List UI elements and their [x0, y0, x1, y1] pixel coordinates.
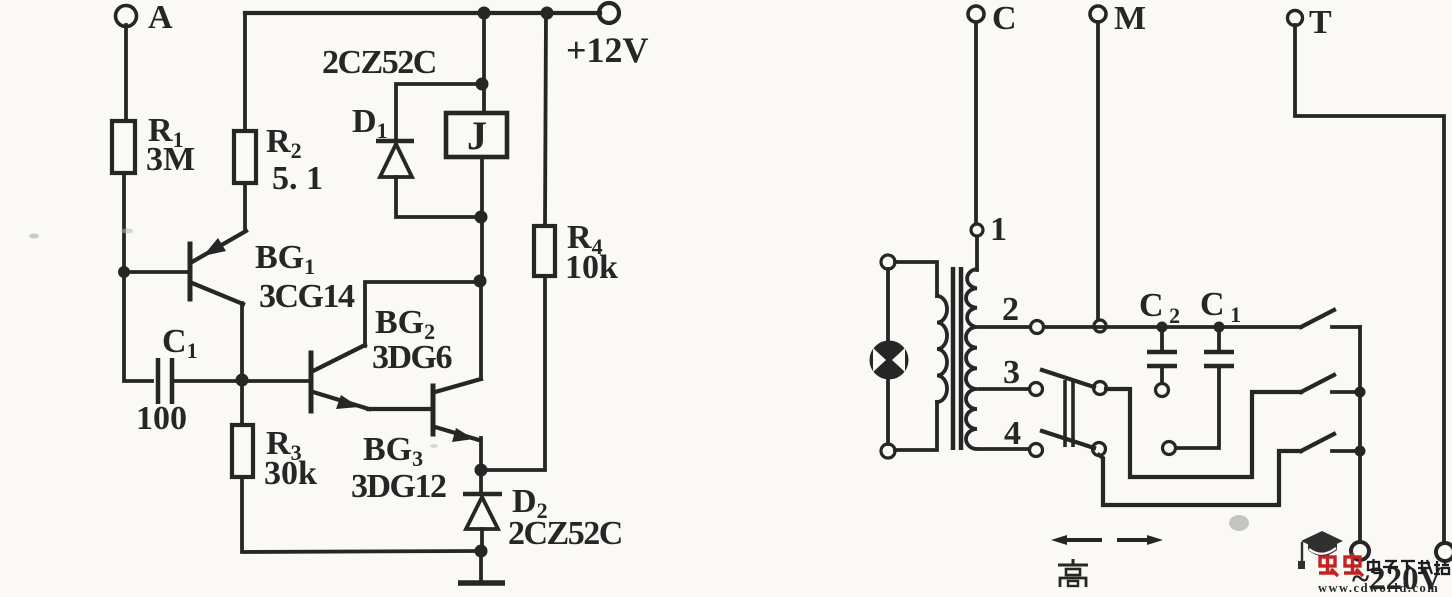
lamp top terminal — [881, 255, 895, 269]
lamp bottom terminal — [881, 444, 895, 458]
primary top wire — [895, 262, 937, 296]
wire BG2 emitter to BG3 base — [368, 407, 431, 411]
transformer primary winding — [937, 296, 947, 402]
primary bottom wire — [895, 402, 937, 450]
wire BG3 emitter junction to R4 — [481, 276, 545, 470]
wire tap2 bus — [1044, 325, 1301, 329]
capacitor C1 100 — [136, 323, 238, 437]
wire relay J down — [480, 157, 484, 282]
diode D2 2CZ52C — [463, 470, 622, 552]
resistor R2 5.1 — [234, 123, 323, 197]
junction C2-bus — [1157, 322, 1168, 333]
svg-text:4: 4 — [1004, 415, 1021, 452]
wire M down — [1096, 22, 1100, 320]
junction C1/R3/BG2 base — [236, 374, 249, 387]
svg-text:M: M — [1114, 0, 1146, 37]
stray mark left — [29, 234, 39, 239]
node T terminal — [1288, 4, 1333, 41]
junction C1-bus — [1214, 322, 1225, 333]
svg-text:3: 3 — [1003, 354, 1020, 391]
svg-text:10k: 10k — [565, 249, 618, 286]
svg-text:A: A — [148, 0, 173, 36]
wire BG2 collector up and right — [365, 282, 478, 346]
junction BG2/BG3 collectors — [474, 275, 487, 288]
tap 2 contact — [1031, 321, 1044, 334]
+12V terminal — [566, 3, 649, 70]
svg-text:+12V: +12V — [566, 30, 649, 70]
node 1 (winding top tap) — [971, 211, 1007, 248]
tap 4 wire — [979, 415, 1029, 452]
transformer secondary winding — [966, 269, 977, 449]
svg-text:C 1: C 1 — [1200, 286, 1241, 327]
label 高 (high) — [1058, 559, 1088, 587]
wire node1 to winding — [975, 237, 979, 270]
node junction left — [118, 266, 130, 278]
transistor BG2 3DG6 — [311, 304, 452, 411]
transistor BG3 3DG12 — [351, 379, 481, 505]
watermark graduation cap — [1298, 531, 1343, 569]
wire C down — [974, 22, 978, 223]
selector blade 4 — [1042, 431, 1094, 448]
diode D1 2CZ52C — [322, 44, 482, 217]
junction M-bus — [1094, 320, 1106, 332]
svg-text:BG2: BG2 — [375, 304, 435, 344]
selector blade 3 — [1042, 370, 1094, 387]
watermark text 电子下载站 — [1368, 559, 1449, 575]
wire R1 to node — [122, 173, 126, 272]
blade 4 pivot — [1093, 443, 1106, 456]
output terminal right — [1436, 543, 1452, 561]
node M terminal — [1090, 0, 1146, 37]
selector coupling bars — [1065, 380, 1073, 447]
svg-text:1: 1 — [990, 211, 1007, 248]
svg-text:R2: R2 — [266, 123, 302, 163]
svg-text:3M: 3M — [146, 141, 195, 178]
relay J — [446, 113, 507, 158]
adjust arrow left — [1051, 535, 1102, 545]
wire lamp top — [886, 269, 890, 343]
switch S2 (middle) — [1301, 375, 1360, 392]
svg-text:BG1: BG1 — [255, 239, 315, 279]
top supply rail wire — [245, 11, 600, 15]
trunk wire to output — [1358, 327, 1362, 542]
wire blade4 pivot to bottom switch — [1099, 451, 1301, 505]
svg-text:C 2: C 2 — [1139, 287, 1180, 328]
output terminal left — [1351, 542, 1369, 560]
wire R4 to top rail — [545, 13, 546, 226]
wire lamp bottom — [886, 378, 890, 444]
watermark ~220V gray smudge — [1229, 515, 1249, 531]
junction D1 bottom — [475, 211, 488, 224]
tap 2 wire — [979, 291, 1030, 328]
svg-text:2CZ52C: 2CZ52C — [508, 515, 622, 552]
wire BG3 collector up — [479, 283, 483, 379]
wire rail to relay J — [482, 13, 486, 113]
stray mark mid — [430, 444, 438, 448]
svg-text:www.cdworld.com: www.cdworld.com — [1318, 581, 1439, 592]
wire BG1 collector down — [240, 303, 244, 380]
resistor R3 30k — [232, 381, 317, 492]
svg-text:T: T — [1309, 4, 1332, 41]
wire T to output right — [1295, 25, 1444, 543]
node A terminal — [116, 0, 174, 36]
tap 3 wire — [979, 354, 1029, 391]
resistor R4 10k — [534, 219, 618, 286]
transistor BG1 3CG14 — [190, 231, 355, 315]
wire R3 down to bottom rail — [242, 477, 477, 552]
watermark logo 虫虫 — [1319, 553, 1363, 576]
wire node down to C1 — [124, 272, 152, 381]
wire R2 to top rail — [243, 13, 247, 131]
wire node to BG1 base — [124, 270, 188, 274]
stray mark left 2 — [121, 229, 133, 234]
svg-text:30k: 30k — [264, 455, 317, 492]
svg-text:2: 2 — [1002, 291, 1019, 328]
switch S1 (top) — [1301, 310, 1360, 327]
wire junction to BG2 base — [242, 379, 309, 383]
junction D1 top — [476, 78, 489, 91]
svg-text:C1: C1 — [162, 323, 198, 363]
adjust arrow right — [1117, 535, 1163, 545]
svg-text:3CG14: 3CG14 — [259, 278, 355, 315]
svg-text:D1: D1 — [352, 103, 388, 143]
capacitor C1 (right) — [1163, 286, 1242, 455]
svg-text:100: 100 — [136, 400, 187, 437]
tap 3 contact — [1030, 383, 1043, 396]
junction BG3 emitter / D2 / R4 — [475, 464, 488, 477]
resistor R1 3M — [112, 112, 195, 178]
ground — [458, 551, 505, 583]
junction D2 / ground — [475, 545, 488, 558]
wire BG3 emitter down — [479, 438, 483, 468]
wire BG1 emitter to R2 — [243, 183, 247, 231]
blade 3 pivot — [1094, 382, 1107, 395]
tap 4 contact — [1030, 444, 1043, 457]
wire blade3 pivot to middle switch — [1106, 389, 1301, 477]
svg-text:3DG12: 3DG12 — [351, 468, 446, 505]
indicator lamp — [871, 342, 908, 379]
svg-text:3DG6: 3DG6 — [372, 339, 452, 376]
svg-text:5. 1: 5. 1 — [272, 160, 323, 197]
svg-text:C: C — [992, 0, 1017, 37]
svg-text:J: J — [467, 113, 487, 158]
switch S3 (bottom) — [1301, 434, 1360, 451]
wire A to R1 — [124, 25, 128, 121]
junction rail-relay — [478, 7, 491, 20]
svg-text:BG3: BG3 — [363, 431, 423, 471]
capacitor C2 — [1139, 287, 1180, 397]
transformer core — [953, 267, 961, 450]
node C terminal — [968, 0, 1017, 37]
svg-text:2CZ52C: 2CZ52C — [322, 44, 436, 81]
junction rail-R4 — [541, 7, 554, 20]
